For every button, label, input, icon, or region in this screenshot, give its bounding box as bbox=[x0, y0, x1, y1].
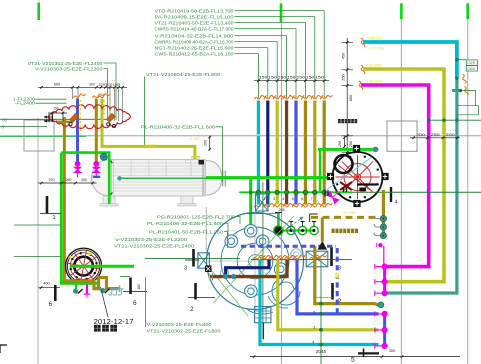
green diagonal A bbox=[213, 216, 294, 303]
thin green vertical x263 bbox=[262, 182, 264, 339]
svg-text:PL-R210406-32-E2B-FL1.600: PL-R210406-32-E2B-FL1.600 bbox=[141, 124, 215, 129]
blue dashed vertical bbox=[336, 248, 339, 313]
teal instrument circle bbox=[100, 153, 107, 160]
vent valve stem bbox=[302, 222, 304, 227]
teal valve dot olive end bbox=[378, 302, 384, 308]
olive riser b + run to exchanger bbox=[102, 99, 195, 164]
ring valve on line y192 bbox=[275, 190, 279, 194]
green grid mark B bbox=[280, 4, 283, 23]
svg-text:+15.000: +15.000 bbox=[366, 78, 383, 83]
olive lower run bbox=[315, 246, 379, 305]
green utility vertical left bbox=[60, 153, 63, 284]
junction dot magenta y120 bbox=[427, 119, 430, 122]
section marker 6 mid bbox=[123, 278, 147, 308]
fitting box right bbox=[305, 250, 328, 269]
olive stub in cloud bbox=[57, 121, 73, 123]
junction dot x321 y344 bbox=[319, 343, 323, 347]
olive drop from R-2 bbox=[382, 190, 385, 237]
svg-text:-FL2400: -FL2400 bbox=[15, 101, 36, 106]
junction dot teal y120 bbox=[455, 119, 458, 122]
green line left y136 bbox=[0, 135, 86, 137]
svg-text:5: 5 bbox=[292, 197, 294, 201]
svg-text:205: 205 bbox=[279, 208, 285, 212]
vertical dimension chain 450-250-850-200 bbox=[342, 38, 354, 156]
svg-text:PL-R210401-50-E2B-FL1.250: PL-R210401-50-E2B-FL1.250 bbox=[149, 229, 223, 234]
navy jumper run bbox=[226, 260, 269, 275]
svg-text:PG-R210801-125-E2B-FL2.700: PG-R210801-125-E2B-FL2.700 bbox=[157, 214, 235, 219]
brown lower run bbox=[209, 260, 288, 277]
svg-text:VT21-V210302-25-E2E-FL800: VT21-V210302-25-E2E-FL800 bbox=[147, 329, 221, 334]
green line through flange bbox=[70, 265, 134, 268]
svg-text:6: 6 bbox=[301, 197, 303, 201]
break squiggle bbox=[293, 255, 305, 259]
dimension 400 bbox=[39, 281, 61, 289]
pipe break bottom bbox=[301, 203, 313, 207]
svg-text:VT21-V210804-25-E2E-FL900: VT21-V210804-25-E2E-FL900 bbox=[146, 72, 220, 77]
svg-text:200: 200 bbox=[446, 133, 455, 137]
svg-text:3: 3 bbox=[313, 325, 315, 329]
pipe break bottom bbox=[273, 203, 285, 207]
magenta angle valve bbox=[326, 189, 341, 204]
svg-text:2012-12-17: 2012-12-17 bbox=[94, 317, 134, 326]
green vertical x321 bbox=[320, 260, 322, 364]
black corner mark bbox=[310, 214, 318, 222]
valve stub y266 bbox=[375, 264, 382, 269]
dark green line y225 bbox=[14, 224, 61, 226]
svg-text:7: 7 bbox=[311, 197, 313, 201]
grid line vertical x401 bbox=[400, 3, 402, 364]
signal loop 2 bbox=[458, 106, 479, 115]
magenta vent dot bbox=[378, 243, 382, 247]
vessel R-1 (reactor plan view) bbox=[206, 211, 305, 311]
ring valve on line y192 bbox=[294, 190, 298, 194]
svg-text:150: 150 bbox=[287, 76, 296, 80]
pipe break bottom bbox=[311, 203, 323, 207]
vent valve 3 bbox=[298, 226, 306, 234]
junction dot x321 y329 bbox=[319, 328, 323, 332]
steam trap 1 bbox=[374, 216, 386, 222]
olive riser a bbox=[95, 99, 98, 163]
leader FL800 labels bbox=[145, 277, 147, 327]
blue stub at exchanger head bbox=[93, 176, 100, 178]
svg-text:250: 250 bbox=[342, 74, 346, 80]
brown nozzle flange bbox=[210, 273, 213, 281]
break squiggle bbox=[310, 255, 322, 259]
svg-text:+0.450: +0.450 bbox=[343, 211, 356, 215]
svg-text:150: 150 bbox=[53, 107, 59, 111]
blue manifold vertical lower bbox=[383, 314, 386, 346]
cloud fitting arrow 1 bbox=[70, 114, 79, 123]
pipe break bottom bbox=[254, 203, 266, 207]
label yi-er-chun tank (CJK) bbox=[338, 119, 357, 123]
hanger symbol 1 bbox=[108, 289, 114, 295]
svg-text:5: 5 bbox=[351, 357, 355, 364]
leader PL-R210406 lower bbox=[224, 223, 228, 236]
green bottom corner bbox=[61, 282, 97, 283]
pipe label CWRR1 line 6 bbox=[155, 39, 278, 98]
teal branch break bbox=[465, 87, 469, 96]
svg-text:6: 6 bbox=[49, 301, 53, 308]
yellow flange on drop 2 bbox=[191, 158, 200, 160]
pipe break top bbox=[320, 95, 332, 99]
green valve header bbox=[278, 229, 314, 231]
green main line to vessel R-two bbox=[206, 176, 331, 179]
NG1 riser (navy) bbox=[266, 101, 269, 205]
exchanger left head black tick bottom bbox=[110, 193, 113, 196]
ring valve on line y192 bbox=[285, 190, 289, 194]
yellow trace on olive riser bbox=[103, 100, 105, 116]
vessel R-2 (metering tank) bbox=[322, 145, 389, 207]
dimension 600-300 row bbox=[38, 82, 127, 121]
dimension row 150x7 bbox=[254, 76, 329, 82]
junction dot green drop bbox=[249, 191, 253, 195]
green diagonal B bbox=[208, 266, 248, 316]
cloud end cap 3 bbox=[112, 124, 115, 127]
cloud left arrows bbox=[44, 116, 52, 122]
blue riser pipe bbox=[76, 99, 79, 163]
svg-text:150: 150 bbox=[297, 76, 306, 80]
section marker 3 left bbox=[184, 249, 199, 272]
bright green segment y192 bbox=[240, 191, 352, 193]
match break line bbox=[251, 259, 352, 261]
pipe label VTO line 1 bbox=[155, 8, 325, 98]
green line y126 bbox=[0, 126, 47, 128]
cloud fitting arrow 2 bbox=[107, 114, 116, 123]
fitting box left bbox=[196, 251, 209, 269]
valve mark on cyan riser bbox=[257, 134, 261, 136]
black flange pair at valve bbox=[325, 190, 328, 197]
valve stub y345 bbox=[375, 343, 382, 348]
svg-text:15015015B: 15015015B bbox=[98, 83, 120, 87]
vent valve 2 bbox=[287, 226, 295, 234]
grid line horizontal y136 bbox=[55, 135, 481, 137]
svg-text:00: 00 bbox=[2, 117, 7, 122]
svg-text:V-V210303-25-E2E-FL2200: V-V210303-25-E2E-FL2200 bbox=[35, 66, 103, 71]
green drop to valve row bbox=[277, 213, 280, 231]
CWS label box bbox=[466, 66, 477, 71]
blue lower run bbox=[297, 260, 379, 314]
svg-text:VT21-V210302-25-E2E-FL2400: VT21-V210302-25-E2E-FL2400 bbox=[114, 243, 194, 248]
break squiggle bbox=[253, 255, 265, 259]
svg-text:3: 3 bbox=[184, 266, 187, 272]
leader FL2400 bbox=[104, 63, 117, 120]
svg-text:200: 200 bbox=[204, 140, 208, 146]
svg-text:6: 6 bbox=[133, 300, 137, 307]
green grid mark D bbox=[466, 4, 469, 20]
break squiggle bbox=[261, 255, 273, 259]
magenta valve on blue riser bbox=[74, 161, 81, 178]
junction dot teal y78 bbox=[455, 77, 458, 80]
dashed olive condensate bbox=[311, 216, 377, 219]
bottom dimension 2045-300 bbox=[250, 348, 460, 364]
ring valve on line y192 bbox=[322, 190, 326, 194]
pipe break bottom bbox=[283, 203, 295, 207]
teal instrument dot at exchanger inlet bbox=[117, 176, 121, 180]
steam trap 3 bbox=[374, 233, 386, 239]
pipe break top bbox=[301, 95, 313, 99]
section marker 2 left bbox=[188, 283, 215, 313]
dimension 200 at vessel R-2 bbox=[338, 136, 346, 148]
junction dot x321 y303 bbox=[319, 302, 323, 306]
dark green line y192 bbox=[239, 191, 481, 193]
svg-text:200: 200 bbox=[349, 141, 353, 147]
pipe label NG1 line 7 bbox=[155, 45, 268, 98]
pipe label CWRS line 4 bbox=[155, 26, 297, 98]
hanger symbol 2 bbox=[113, 289, 119, 295]
teal valve dot on brown 2 bbox=[231, 274, 236, 279]
svg-text:+1.600: +1.600 bbox=[143, 143, 156, 147]
pipe break top bbox=[264, 95, 276, 99]
pipe break bottom bbox=[292, 203, 304, 207]
ring valve on line y192 bbox=[266, 190, 270, 194]
yellow-green header pipe bbox=[363, 69, 444, 282]
fitting box top (on risers) bbox=[254, 193, 268, 213]
magenta drain stub bbox=[84, 285, 90, 297]
magenta valve dot y345 bbox=[382, 343, 388, 349]
svg-text:CWS-: CWS- bbox=[467, 67, 476, 71]
leader VT21-V210804 bbox=[144, 77, 146, 148]
svg-text:PL-R210406-32-E2B-FL1.600: PL-R210406-32-E2B-FL1.600 bbox=[147, 221, 223, 226]
pipe break top bbox=[311, 95, 323, 99]
cyan lower run bbox=[260, 260, 379, 345]
olive riser a break bbox=[92, 94, 104, 98]
signal line to CWR box bbox=[457, 59, 466, 61]
manhole flange circle bbox=[66, 248, 103, 284]
svg-text:180: 180 bbox=[137, 284, 141, 290]
black flow arrow bbox=[318, 242, 327, 250]
magenta valve dot y313 bbox=[382, 311, 388, 317]
junction dot y119 bbox=[95, 118, 98, 121]
svg-text:+16.600: +16.600 bbox=[366, 63, 383, 68]
grid line vertical x281 bbox=[280, 3, 282, 364]
magenta valve on olive riser bbox=[93, 161, 100, 178]
svg-text:+18.100: +18.100 bbox=[367, 35, 384, 40]
svg-text:300: 300 bbox=[89, 83, 95, 87]
border corner mark bbox=[0, 345, 7, 353]
black tick drain 1 bbox=[78, 289, 83, 294]
junction dot teal y90 bbox=[459, 89, 462, 92]
vent valve stem bbox=[290, 222, 292, 227]
svg-text:150: 150 bbox=[259, 76, 268, 80]
svg-text:NG1-R210402-25-E2E-FL15.600: NG1-R210402-25-E2E-FL15.600 bbox=[155, 45, 234, 50]
dimension 200-250-200 bbox=[410, 133, 460, 139]
grid line vertical x468 bbox=[467, 3, 469, 364]
exchanger top nozzle dark bbox=[199, 160, 205, 165]
heat exchanger E-210801 bbox=[92, 160, 230, 207]
exchanger top notch bbox=[186, 160, 191, 162]
svg-text:+1.600: +1.600 bbox=[189, 137, 201, 141]
svg-text:CWR-: CWR- bbox=[467, 61, 476, 65]
pipe label CWS line 8 bbox=[155, 51, 259, 98]
olive riser b break bbox=[98, 94, 110, 98]
black tick drain 2 bbox=[105, 289, 110, 294]
svg-text:150: 150 bbox=[315, 76, 324, 80]
magenta manifold vertical upper bbox=[383, 267, 386, 294]
CWRS riser (blue) bbox=[294, 101, 297, 205]
cloud end cap 1 bbox=[69, 122, 72, 125]
black mark 8 bbox=[205, 266, 212, 273]
cloud end cap 2 bbox=[107, 123, 110, 126]
svg-text:CWS-R210412-65-B2A-FL18.100: CWS-R210412-65-B2A-FL18.100 bbox=[155, 51, 234, 56]
gray stem above left box bbox=[205, 207, 207, 253]
valve stub y313 bbox=[375, 311, 382, 316]
vent valve 4 bbox=[310, 226, 318, 234]
pipe break bottom bbox=[264, 203, 276, 207]
leader PL-R210406 upper bbox=[216, 127, 223, 182]
svg-text:300: 300 bbox=[389, 348, 396, 353]
ring valve on line y192 bbox=[256, 190, 260, 194]
black flange marks right bbox=[344, 187, 347, 192]
leader PG-R210801 bbox=[236, 217, 240, 224]
vessel bottom nozzle box bbox=[247, 307, 273, 323]
svg-text:370: 370 bbox=[49, 178, 55, 182]
yellow-green pipe break bbox=[361, 65, 365, 74]
svg-text:150: 150 bbox=[268, 76, 277, 80]
green drop x320 bbox=[319, 149, 321, 191]
green line through left box bbox=[145, 257, 240, 259]
break squiggle bbox=[277, 255, 289, 259]
valve stub y281 bbox=[375, 279, 382, 284]
valve stub y293 bbox=[375, 291, 382, 296]
teal drain dot 1 bbox=[73, 289, 78, 294]
label LP steam condensate (CJK) bbox=[332, 229, 359, 233]
CWR label box bbox=[466, 60, 477, 65]
ring valve on line y192 bbox=[303, 190, 307, 194]
teal drain dot 2 bbox=[100, 288, 105, 293]
magenta valve dot y330 bbox=[382, 327, 388, 333]
section marker 2 right bbox=[315, 283, 342, 306]
pipe break top bbox=[292, 95, 304, 99]
green grid mark C bbox=[400, 4, 403, 20]
CWRR1 riser (yellow-green) bbox=[276, 101, 279, 205]
svg-text:300: 300 bbox=[81, 178, 87, 182]
junction dot x321 y313 bbox=[319, 312, 323, 316]
svg-text:2: 2 bbox=[313, 311, 315, 315]
teal dot end of green header bbox=[373, 147, 379, 153]
blue dashed line bbox=[241, 245, 336, 248]
yellow-green lower run bbox=[278, 260, 379, 330]
dimension 370-280-300 bbox=[38, 178, 97, 184]
magenta valve dot y281 bbox=[382, 279, 388, 285]
yellow trace on blue riser bbox=[79, 100, 81, 131]
svg-text:VT21-R210403-50-E2E-FL13.400: VT21-R210403-50-E2E-FL13.400 bbox=[155, 20, 234, 25]
teal valve dot on brown 1 bbox=[223, 274, 228, 279]
green header to small vessel bbox=[318, 148, 374, 151]
yellow flange on drop bbox=[191, 156, 200, 158]
section marker 4 bbox=[391, 187, 398, 206]
teal branch y90 bbox=[452, 89, 462, 92]
V riser (brown) bbox=[285, 101, 288, 205]
yellow star marker bbox=[335, 272, 340, 279]
green line through exchanger bbox=[121, 177, 208, 179]
equipment box top-left bbox=[24, 120, 54, 151]
svg-text:4: 4 bbox=[312, 340, 314, 344]
VTO riser (olive) bbox=[323, 101, 326, 205]
svg-text:V-V210303-25-E2E-FL800: V-V210303-25-E2E-FL800 bbox=[147, 322, 212, 327]
grid line vertical x38 bbox=[37, 118, 39, 364]
break squiggle bbox=[285, 255, 297, 259]
riser numbers 1-7 bbox=[254, 197, 312, 201]
svg-text:3: 3 bbox=[273, 197, 275, 201]
teal slope arrow bbox=[291, 217, 303, 226]
cloud dim ticks bbox=[48, 112, 67, 122]
hanger symbol 3 bbox=[118, 289, 124, 295]
dimension 200 exchanger bbox=[204, 136, 212, 151]
end flange tick bbox=[119, 286, 121, 293]
svg-text:400: 400 bbox=[43, 281, 49, 285]
teal stub break right bbox=[463, 74, 467, 83]
tee cap at green drop bbox=[275, 212, 282, 214]
pipe label PA line 2 bbox=[155, 14, 315, 98]
CWS riser (cyan) bbox=[257, 101, 260, 205]
svg-text:4: 4 bbox=[395, 200, 398, 206]
svg-text:PA-R210409-15-E2E-FL16.100: PA-R210409-15-E2E-FL16.100 bbox=[155, 14, 234, 19]
svg-text:CWRR1-R210408-40-B2A-C-FL16.70: CWRR1-R210408-40-B2A-C-FL16.700 bbox=[155, 39, 234, 44]
svg-text:200: 200 bbox=[338, 141, 342, 147]
cyan pipe break bbox=[361, 38, 365, 47]
svg-text:VT21-V210302-25-E2E-FL2400: VT21-V210302-25-E2E-FL2400 bbox=[28, 61, 103, 66]
section marker 6 left bbox=[49, 285, 56, 308]
pipe break top bbox=[283, 95, 295, 99]
svg-text:1: 1 bbox=[53, 215, 56, 221]
svg-text:~~~~: ~~~~ bbox=[225, 229, 238, 233]
signal loop 1 bbox=[458, 91, 476, 106]
svg-text:V-V210303-25-E2E-FL2200: V-V210303-25-E2E-FL2200 bbox=[115, 237, 187, 242]
junction dot yg y120 bbox=[442, 119, 445, 122]
cloud flange pair bbox=[49, 115, 52, 123]
svg-text:150: 150 bbox=[278, 76, 287, 80]
green line y119 bbox=[0, 118, 107, 120]
teal main vertical bbox=[386, 77, 457, 293]
magenta valve dot y266 bbox=[382, 264, 388, 270]
pipe label V line 5 bbox=[155, 33, 287, 98]
svg-text:250: 250 bbox=[431, 133, 440, 137]
junction dot cyan y60 bbox=[455, 58, 458, 61]
olive new pipe (2012-12-17) bbox=[64, 278, 118, 289]
break squiggle bbox=[269, 255, 281, 259]
cyan header pipe bbox=[363, 42, 457, 79]
steam trap 2 bbox=[374, 224, 386, 230]
revision cloud bbox=[49, 104, 131, 128]
PA riser (dark yellow) bbox=[313, 101, 316, 205]
svg-text:VTO-R210419-50-E2B-FL13.700: VTO-R210419-50-E2B-FL13.700 bbox=[155, 8, 234, 13]
pipe label VT21 line 3 bbox=[155, 20, 306, 98]
equipment box top-right bbox=[387, 121, 417, 151]
svg-text:2: 2 bbox=[190, 306, 194, 313]
VT21 riser (olive) bbox=[304, 101, 307, 205]
magenta valve dot y293 bbox=[382, 290, 388, 296]
vent valve 1 (closed) bbox=[274, 226, 283, 235]
dark green line y256 bbox=[14, 256, 61, 258]
svg-text:CWRS-R210414-40-B2A-C-FL17.000: CWRS-R210414-40-B2A-C-FL17.000 bbox=[155, 26, 234, 31]
magenta header pipe bbox=[361, 85, 429, 267]
vent valve stem bbox=[313, 222, 315, 227]
dim line 205 bbox=[243, 213, 277, 215]
green branch drop to vessel bbox=[249, 179, 252, 228]
leader -FL2200 bbox=[36, 98, 67, 100]
blue riser break bbox=[74, 94, 86, 98]
dark green header line y120 bbox=[429, 119, 481, 121]
green drain stub bbox=[75, 285, 77, 291]
svg-text:150: 150 bbox=[306, 76, 315, 80]
olive drop line left bbox=[63, 117, 66, 279]
svg-text:V-R210404-32-E2B-FL14.900: V-R210404-32-E2B-FL14.900 bbox=[155, 33, 234, 38]
dark drop from nozzle bbox=[263, 323, 265, 340]
text xin-jia-guan (CJK) bbox=[94, 325, 117, 332]
section marker 1 bbox=[40, 196, 61, 221]
green grid mark A bbox=[37, 3, 40, 21]
magenta pipe break bbox=[359, 81, 363, 90]
